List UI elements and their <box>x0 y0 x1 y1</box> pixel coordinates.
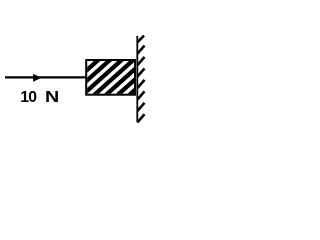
wall hatch 5 <box>137 80 144 88</box>
wall line <box>136 36 138 122</box>
wire force arrow shaft <box>5 76 86 78</box>
wall hatch 7 <box>137 103 144 111</box>
force arrowhead <box>33 74 42 82</box>
block body <box>86 60 135 95</box>
block hatching <box>54 58 170 99</box>
wall hatch 3 <box>137 57 144 65</box>
wall hatch 4 <box>137 68 144 76</box>
wall hatch 6 <box>137 91 144 99</box>
svg-text:10: 10 <box>20 89 37 106</box>
wall hatch 8 <box>137 114 144 122</box>
wall hatch 2 <box>137 46 144 54</box>
wall hatch 1 <box>137 36 144 43</box>
svg-text:N: N <box>45 89 59 106</box>
